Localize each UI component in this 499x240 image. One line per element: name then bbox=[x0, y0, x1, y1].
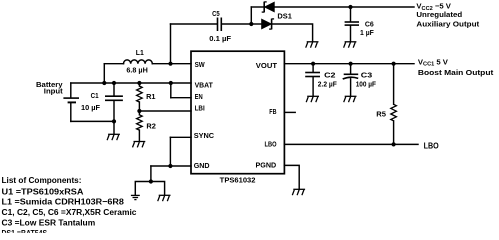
wire C3 bottom lead bbox=[350, 79, 352, 97]
svg-text:List of Components:: List of Components: bbox=[2, 175, 82, 185]
capacitor C1 bbox=[105, 96, 123, 100]
svg-text:Input: Input bbox=[44, 87, 63, 96]
wire EN stub bbox=[171, 97, 191, 99]
wire R1 bottom lead bbox=[138, 102, 140, 111]
wire C1 top lead bbox=[113, 83, 115, 96]
node R1 tap on VBAT rail bbox=[137, 81, 141, 85]
wire R5 bottom lead bbox=[393, 121, 395, 145]
svg-text:R2: R2 bbox=[146, 122, 156, 131]
ground (earth) left bbox=[131, 195, 140, 199]
svg-text:LBO: LBO bbox=[424, 141, 440, 150]
svg-text:EN: EN bbox=[195, 92, 203, 101]
svg-text:DS1: DS1 bbox=[277, 12, 292, 21]
node C6 tap on Vcc2 rail bbox=[348, 5, 352, 9]
svg-text:VOUT: VOUT bbox=[256, 61, 277, 70]
node GND branch junction bbox=[149, 179, 153, 183]
svg-text:FB: FB bbox=[269, 107, 277, 116]
ground (chassis) DS1B bbox=[306, 42, 319, 48]
svg-text:SW: SW bbox=[195, 60, 206, 69]
svg-text:Boost Main Output: Boost Main Output bbox=[418, 68, 494, 77]
svg-text:2.2 µF: 2.2 µF bbox=[318, 80, 337, 89]
capacitor C6 bbox=[345, 22, 359, 25]
wire DS1A anode to Vcc2 rail bbox=[274, 6, 414, 8]
svg-text:0.1 µF: 0.1 µF bbox=[209, 34, 231, 43]
svg-text:Auxiliary Output: Auxiliary Output bbox=[416, 19, 479, 28]
resistor R5 bbox=[391, 104, 397, 121]
wire PGND stub bbox=[284, 165, 299, 189]
svg-text:R5: R5 bbox=[376, 110, 386, 119]
ground (chassis) R2 bbox=[133, 142, 146, 148]
svg-text:C1: C1 bbox=[91, 91, 100, 100]
svg-text:L1 =Sumida CDRH103R−6R8: L1 =Sumida CDRH103R−6R8 bbox=[2, 197, 125, 207]
wire C2 top lead bbox=[312, 64, 314, 72]
battery symbol bbox=[63, 98, 79, 102]
capacitor C5 bbox=[218, 18, 222, 32]
wire GND pin bbox=[151, 165, 191, 167]
ground (chassis) C1 bbox=[107, 134, 120, 140]
svg-text:1 µF: 1 µF bbox=[360, 28, 374, 37]
svg-text:R1: R1 bbox=[146, 92, 156, 101]
node R1/R2/LBI junction bbox=[137, 109, 141, 113]
resistor R2 bbox=[137, 115, 143, 130]
svg-text:C1, C2, C5, C6 =X7R,X5R Ceram: C1, C2, C5, C6 =X7R,X5R Ceramic bbox=[2, 207, 137, 217]
svg-text:6.8 µH: 6.8 µH bbox=[126, 65, 148, 74]
node pump (C5/DS1 junction) bbox=[249, 22, 253, 26]
svg-text:Unregulated: Unregulated bbox=[416, 10, 462, 19]
wire SYNC riser to GND wire bbox=[169, 137, 171, 166]
svg-text:LBO: LBO bbox=[265, 140, 277, 149]
wire pump node riser bbox=[250, 7, 252, 24]
svg-text:L1: L1 bbox=[136, 48, 145, 57]
wire R2 bottom lead bbox=[138, 130, 140, 141]
wire C2 bottom lead bbox=[312, 77, 314, 96]
list of components text block bbox=[2, 175, 137, 238]
node R5/LBO junction bbox=[392, 142, 396, 146]
capacitor C2 bbox=[305, 73, 320, 77]
diode DS1B (schottky, pointing right) bbox=[262, 19, 275, 30]
wire VBAT rail bbox=[71, 82, 191, 84]
wire C6 top lead bbox=[350, 7, 352, 21]
node C1/battery return junction bbox=[112, 119, 116, 123]
node C2 tap bbox=[311, 62, 315, 66]
svg-text:C5: C5 bbox=[212, 9, 220, 18]
svg-text:C3 =Low ESR Tantalum: C3 =Low ESR Tantalum bbox=[2, 218, 96, 228]
wire C1 bottom lead bbox=[113, 101, 115, 134]
svg-text:LBI: LBI bbox=[195, 104, 205, 113]
wire GND right arm bbox=[151, 182, 165, 196]
wire C5 left segment bbox=[171, 23, 218, 25]
wire LBO bbox=[284, 143, 418, 145]
svg-text:TPS61032: TPS61032 bbox=[220, 176, 256, 185]
wire DS1B cathode to ground drop bbox=[272, 24, 313, 42]
node SYNC/GND junction bbox=[168, 164, 172, 168]
node C1 tap on VBAT rail bbox=[112, 81, 116, 85]
svg-text:VBAT: VBAT bbox=[195, 81, 213, 90]
wire C6 bottom lead bbox=[350, 26, 352, 42]
capacitor C3 (polarized) bbox=[343, 74, 359, 79]
wire GND left arm bbox=[135, 182, 151, 196]
wire LBI bbox=[139, 110, 191, 112]
node R5 tap bbox=[392, 62, 396, 66]
wire R2 top lead bbox=[138, 111, 140, 115]
label Battery Input bbox=[36, 80, 63, 96]
wire FB stub bbox=[284, 111, 295, 113]
svg-text:100 µF: 100 µF bbox=[356, 80, 377, 89]
IC U1 body bbox=[191, 51, 284, 174]
node L1 riser on VBAT rail bbox=[102, 81, 106, 85]
wire R1 top lead bbox=[138, 83, 140, 86]
svg-text:C2: C2 bbox=[324, 70, 335, 79]
resistor R1 bbox=[137, 86, 143, 102]
ground (chassis) C6 bbox=[344, 42, 357, 48]
wire C5 riser to SW node bbox=[170, 24, 172, 64]
svg-text:U1 =TPS6109xRSA: U1 =TPS6109xRSA bbox=[2, 186, 84, 196]
ground (chassis) C3 bbox=[344, 96, 357, 102]
wire battery bottom lead bbox=[70, 103, 72, 121]
wire GND drop bbox=[150, 166, 152, 182]
svg-text:10 µF: 10 µF bbox=[81, 103, 100, 112]
node EN tap on VBAT rail bbox=[169, 81, 173, 85]
wire VOUT rail bbox=[284, 63, 414, 65]
wire SYNC stub bbox=[170, 136, 191, 138]
wire R5 top lead bbox=[393, 64, 395, 105]
ground (chassis) C2 bbox=[306, 96, 319, 102]
node C3 tap bbox=[349, 62, 353, 66]
diode DS1A (schottky, pointing left) bbox=[262, 2, 275, 13]
wire battery return to C1 bbox=[71, 120, 114, 122]
wire EN drop bbox=[170, 83, 172, 98]
wire to DS1A cathode bbox=[251, 6, 264, 8]
ground (chassis) right bbox=[158, 195, 171, 201]
wire C5 right segment bbox=[222, 23, 252, 25]
wire SW pin bbox=[152, 63, 191, 65]
wire C3 top lead bbox=[350, 64, 352, 74]
wire L1 riser to VBAT rail bbox=[103, 64, 105, 83]
wire battery top lead bbox=[70, 83, 72, 97]
svg-text:C3: C3 bbox=[361, 70, 372, 79]
inductor L1 bbox=[124, 60, 153, 64]
svg-text:GND: GND bbox=[194, 161, 210, 170]
node SW/C5/L1 junction bbox=[168, 62, 172, 66]
svg-text:SYNC: SYNC bbox=[194, 131, 215, 140]
wire L1 left lead bbox=[104, 63, 123, 65]
wire pump node to DS1B anode bbox=[251, 23, 261, 25]
svg-text:DS1 =BAT54S: DS1 =BAT54S bbox=[2, 228, 48, 237]
svg-text:VCC1 5 V: VCC1 5 V bbox=[418, 57, 449, 67]
svg-text:PGND: PGND bbox=[256, 161, 277, 170]
ground (chassis) PGND bbox=[292, 189, 305, 195]
